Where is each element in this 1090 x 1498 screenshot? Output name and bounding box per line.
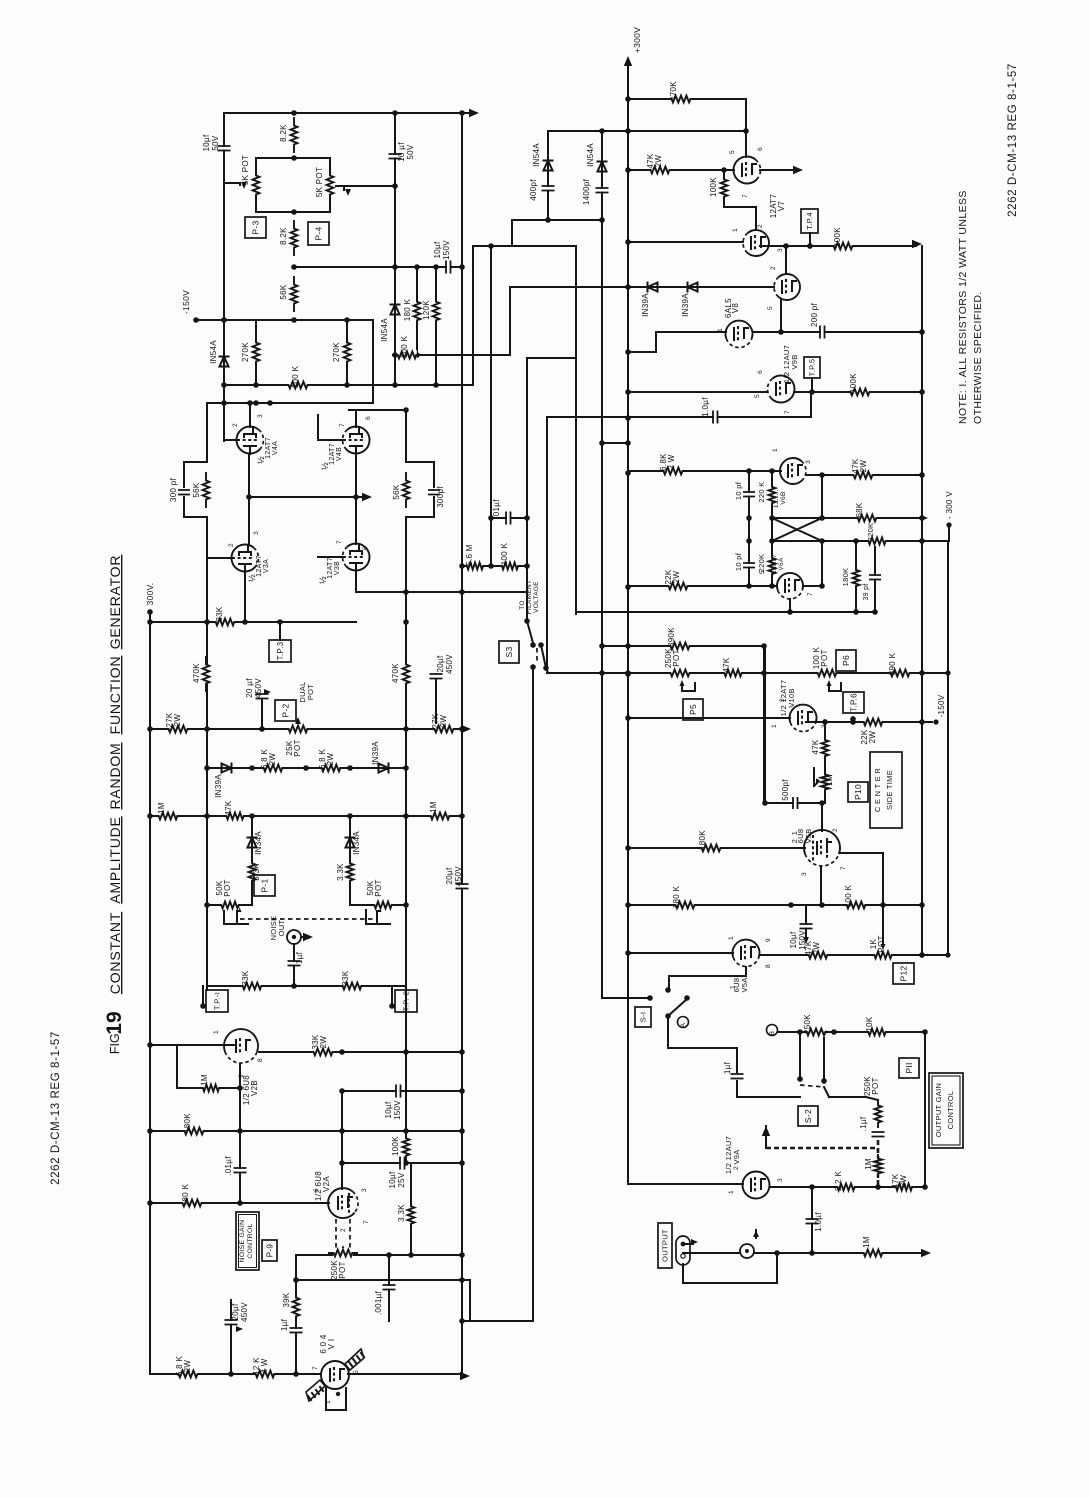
svg-text:A: A: [680, 1022, 687, 1027]
svg-text:V3B: V3B: [334, 561, 341, 575]
svg-text:7: 7: [742, 194, 749, 198]
svg-text:1µf: 1µf: [295, 951, 304, 964]
svg-text:7: 7: [807, 592, 814, 596]
svg-text:270K: 270K: [332, 342, 341, 362]
svg-text:P-1: P-1: [260, 878, 270, 892]
svg-text:2W: 2W: [672, 571, 681, 584]
svg-text:S-2: S-2: [803, 1109, 813, 1123]
svg-text:2W: 2W: [268, 753, 277, 766]
svg-text:20µf: 20µf: [231, 1303, 240, 1320]
svg-text:S-I: S-I: [639, 1012, 648, 1022]
svg-text:2: 2: [779, 698, 786, 702]
svg-text:10 pf: 10 pf: [734, 481, 743, 500]
svg-text:20µf: 20µf: [436, 655, 445, 672]
svg-text:10µf: 10µf: [789, 931, 798, 948]
svg-text:56K: 56K: [279, 284, 288, 299]
svg-text:OUTPUT: OUTPUT: [661, 1229, 670, 1262]
svg-text:2W: 2W: [899, 1175, 908, 1188]
svg-text:POT: POT: [877, 935, 886, 952]
svg-text:POT: POT: [293, 739, 302, 756]
svg-text:56K: 56K: [192, 482, 201, 497]
svg-text:8: 8: [765, 964, 772, 968]
svg-text:1M: 1M: [864, 1158, 873, 1170]
svg-text:1M: 1M: [157, 802, 166, 814]
svg-text:270K: 270K: [241, 342, 250, 362]
svg-text:V3A: V3A: [263, 559, 270, 573]
svg-text:50V: 50V: [211, 135, 220, 150]
svg-text:T.P.3: T.P.3: [276, 641, 285, 660]
svg-text:CONSTANT: CONSTANT: [107, 912, 123, 994]
svg-text:V6A: V6A: [778, 557, 785, 571]
svg-text:V10B: V10B: [787, 688, 796, 708]
svg-text:5.6 M: 5.6 M: [465, 544, 474, 566]
svg-text:POT: POT: [672, 649, 681, 666]
svg-text:V2A: V2A: [322, 1176, 331, 1192]
svg-text:39 pf: 39 pf: [863, 583, 870, 600]
svg-text:47K: 47K: [811, 739, 820, 754]
svg-text:POT: POT: [306, 684, 315, 700]
svg-text:3: 3: [805, 460, 812, 464]
svg-text:20 µf: 20 µf: [245, 678, 254, 698]
svg-text:2W: 2W: [439, 715, 448, 728]
svg-text:7: 7: [840, 866, 847, 870]
svg-text:7: 7: [363, 1220, 370, 1224]
svg-text:100 K: 100 K: [844, 884, 853, 907]
svg-text:1.0µf: 1.0µf: [814, 1212, 823, 1232]
svg-text:S3: S3: [504, 647, 514, 658]
svg-text:4 W: 4 W: [260, 1358, 269, 1373]
svg-text:V9B: V9B: [790, 354, 799, 369]
svg-text:VOLTAGE: VOLTAGE: [533, 581, 540, 613]
svg-text:200 pf: 200 pf: [810, 303, 819, 328]
svg-text:2.2 K: 2.2 K: [834, 1171, 843, 1192]
svg-text:390 K: 390 K: [888, 652, 897, 675]
svg-text:8.2K: 8.2K: [279, 124, 288, 142]
svg-text:T.P.4: T.P.4: [805, 212, 814, 230]
svg-text:7: 7: [752, 330, 759, 334]
svg-text:2W: 2W: [319, 1036, 328, 1049]
svg-text:450V: 450V: [454, 866, 463, 886]
svg-text:6: 6: [362, 546, 369, 550]
svg-text:50V: 50V: [406, 144, 415, 159]
svg-text:450V: 450V: [254, 678, 263, 698]
svg-text:12AT7: 12AT7: [256, 555, 263, 577]
svg-text:6: 6: [313, 1188, 320, 1192]
svg-text:T.P.-I: T.P.-I: [213, 992, 222, 1010]
svg-text:T.P.5: T.P.5: [808, 359, 817, 377]
svg-text:470K: 470K: [391, 663, 400, 683]
svg-text:+ 300V.: + 300V.: [145, 583, 155, 614]
svg-text:400pf: 400pf: [529, 179, 538, 201]
svg-text:220K: 220K: [757, 554, 766, 573]
svg-text:500pf: 500pf: [781, 779, 790, 801]
svg-text:9: 9: [765, 938, 772, 942]
svg-text:1: 1: [772, 448, 779, 452]
svg-text:5: 5: [754, 394, 761, 398]
svg-text:12AT7: 12AT7: [265, 437, 272, 459]
svg-text:-150V: -150V: [181, 290, 191, 314]
svg-text:450V: 450V: [445, 654, 454, 674]
svg-text:2262 D-CM-13 REG 8-1-57: 2262 D-CM-13 REG 8-1-57: [1007, 63, 1019, 217]
svg-text:100 K: 100 K: [400, 335, 409, 358]
svg-text:2: 2: [340, 1228, 347, 1232]
svg-text:10µf: 10µf: [433, 241, 442, 258]
svg-text:V9A: V9A: [732, 1149, 741, 1164]
svg-text:100K: 100K: [833, 227, 842, 247]
svg-text:P12: P12: [899, 965, 909, 981]
svg-text:1: 1: [728, 1190, 735, 1194]
svg-text:IN54A: IN54A: [586, 143, 595, 167]
svg-text:220 K: 220 K: [757, 481, 766, 502]
svg-text:6: 6: [757, 370, 764, 374]
svg-text:NOTE: I. ALL RESISTORS 1/2: NOTE: I. ALL RESISTORS 1/2 WATT UNLESS: [957, 190, 969, 424]
svg-text:T.P.-2: T.P.-2: [402, 991, 411, 1011]
svg-text:OUT: OUT: [277, 920, 286, 937]
svg-text:2: 2: [232, 423, 239, 427]
svg-text:1: 1: [732, 228, 739, 232]
svg-text:5: 5: [729, 150, 736, 154]
svg-text:V6B: V6B: [780, 491, 787, 504]
svg-text:CONTROL: CONTROL: [247, 1223, 254, 1258]
svg-text:47K: 47K: [722, 657, 731, 672]
svg-text:180 K: 180 K: [181, 1183, 190, 1206]
svg-text:10µf: 10µf: [384, 1101, 393, 1118]
svg-text:IN54A: IN54A: [380, 318, 389, 342]
svg-text:IN39A: IN39A: [641, 293, 650, 317]
svg-text:120K: 120K: [422, 300, 431, 320]
svg-text:2W: 2W: [812, 942, 821, 955]
svg-text:220K: 220K: [866, 523, 875, 542]
svg-text:P-3: P-3: [251, 220, 261, 234]
svg-text:IN34A: IN34A: [254, 831, 263, 855]
svg-text:V7: V7: [777, 201, 786, 212]
svg-text:FILAMENT: FILAMENT: [526, 580, 533, 615]
svg-text:P5: P5: [688, 704, 698, 715]
svg-text:3: 3: [777, 248, 784, 252]
svg-text:TO: TO: [519, 600, 526, 610]
svg-text:10 µf: 10 µf: [397, 142, 406, 162]
svg-text:IN39A: IN39A: [371, 741, 380, 765]
svg-text:33K: 33K: [241, 970, 250, 985]
svg-text:3: 3: [777, 1178, 784, 1182]
svg-text:39K: 39K: [282, 1292, 291, 1307]
svg-text:470K: 470K: [192, 663, 201, 683]
svg-text:POT: POT: [223, 879, 232, 896]
svg-text:IN54A: IN54A: [532, 143, 541, 167]
svg-text:100K: 100K: [391, 1136, 400, 1156]
svg-text:100K: 100K: [849, 373, 858, 393]
svg-text:+300V: +300V: [632, 27, 642, 53]
svg-text:P-9: P-9: [265, 1244, 274, 1258]
svg-text:1M: 1M: [200, 1074, 209, 1086]
svg-text:V5B: V5B: [804, 828, 813, 843]
svg-text:3.3K: 3.3K: [397, 1204, 406, 1222]
svg-text:6: 6: [365, 416, 372, 420]
svg-text:2W: 2W: [654, 155, 663, 168]
svg-text:V5A: V5A: [740, 977, 749, 992]
svg-text:19: 19: [103, 1011, 126, 1034]
svg-text:470K: 470K: [669, 81, 678, 101]
svg-text:2262 D-CM-13 REG 8-1-57: 2262 D-CM-13 REG 8-1-57: [50, 1031, 62, 1185]
svg-text:100 K: 100 K: [500, 542, 509, 565]
svg-text:1µf: 1µf: [723, 1061, 732, 1074]
svg-text:2: 2: [733, 1166, 740, 1170]
svg-text:2: 2: [757, 224, 764, 228]
svg-text:10µf: 10µf: [388, 1171, 397, 1188]
svg-text:3.3K: 3.3K: [336, 863, 345, 881]
svg-text:300 pf: 300 pf: [169, 478, 178, 503]
svg-text:CONTROL: CONTROL: [946, 1091, 955, 1130]
svg-text:1M: 1M: [825, 774, 834, 786]
svg-text:100 K: 100 K: [291, 365, 300, 388]
svg-text:3: 3: [801, 872, 808, 876]
svg-text:180 K: 180 K: [403, 298, 412, 321]
svg-text:POT: POT: [374, 879, 383, 896]
svg-text:12AT7: 12AT7: [771, 554, 778, 574]
svg-text:1.0µf: 1.0µf: [701, 397, 710, 417]
svg-text:100K: 100K: [709, 177, 718, 197]
svg-text:2W: 2W: [173, 714, 182, 727]
svg-text:2W: 2W: [326, 753, 335, 766]
svg-text:.01µf: .01µf: [492, 499, 501, 519]
svg-text:1: 1: [325, 1400, 332, 1404]
svg-text:300pf: 300pf: [436, 486, 445, 508]
svg-text:IN39A: IN39A: [681, 293, 690, 317]
svg-text:25V: 25V: [397, 1172, 406, 1187]
svg-text:V8: V8: [731, 303, 740, 314]
svg-text:5K POT: 5K POT: [241, 155, 250, 185]
svg-text:.1µf: .1µf: [859, 1116, 868, 1131]
svg-text:SIDE TIME: SIDE TIME: [885, 770, 894, 810]
svg-text:20µf: 20µf: [445, 867, 454, 884]
svg-text:IN39A: IN39A: [214, 774, 223, 798]
svg-text:1µf: 1µf: [280, 1318, 289, 1331]
svg-text:3: 3: [253, 531, 260, 535]
svg-text:T.P.6: T.P.6: [849, 693, 858, 712]
svg-text:V4B: V4B: [336, 447, 343, 461]
svg-text:FUNCTION: FUNCTION: [107, 656, 123, 735]
svg-text:P-2: P-2: [281, 703, 291, 717]
svg-text:390K: 390K: [667, 627, 676, 647]
svg-text:RANDOM: RANDOM: [107, 742, 123, 809]
svg-text:8: 8: [257, 1058, 264, 1062]
svg-text:2: 2: [832, 828, 839, 832]
svg-text:POT: POT: [820, 649, 829, 666]
svg-text:V I: V I: [327, 1339, 336, 1350]
svg-text:IN34A: IN34A: [352, 831, 361, 855]
svg-text:10 pf: 10 pf: [734, 552, 743, 571]
svg-text:10µf: 10µf: [202, 134, 211, 151]
svg-text:2 W: 2 W: [667, 454, 676, 469]
svg-text:7: 7: [336, 540, 343, 544]
svg-text:250K: 250K: [803, 1014, 812, 1034]
svg-text:68K: 68K: [855, 502, 864, 517]
svg-text:3: 3: [361, 1188, 368, 1192]
svg-text:P10: P10: [853, 784, 863, 800]
svg-text:56K: 56K: [392, 484, 401, 499]
svg-text:180K: 180K: [183, 1113, 192, 1133]
svg-text:GENERATOR: GENERATOR: [107, 555, 123, 650]
svg-text:1M: 1M: [429, 801, 438, 813]
svg-text:OUTPUT GAIN: OUTPUT GAIN: [934, 1083, 943, 1137]
svg-text:IN54A: IN54A: [209, 340, 218, 364]
svg-text:150V: 150V: [393, 1100, 402, 1120]
svg-text:10K: 10K: [865, 1016, 874, 1031]
svg-text:12AT7: 12AT7: [327, 557, 334, 579]
svg-text:180K: 180K: [841, 568, 850, 587]
svg-text:1: 1: [728, 936, 735, 940]
svg-text:V2B: V2B: [250, 1080, 259, 1096]
svg-text:33K: 33K: [215, 606, 224, 621]
svg-text:AMPLITUDE: AMPLITUDE: [107, 816, 123, 903]
svg-text:C E N T E R: C E N T E R: [873, 768, 882, 813]
svg-text:8.2K: 8.2K: [279, 227, 288, 245]
svg-text:.01µf: .01µf: [224, 1156, 233, 1176]
svg-text:9: 9: [238, 1074, 245, 1078]
svg-text:1: 1: [717, 328, 724, 332]
svg-text:2W: 2W: [868, 731, 877, 744]
svg-text:2: 2: [770, 266, 777, 270]
svg-text:33K: 33K: [341, 970, 350, 985]
svg-text:3: 3: [257, 414, 264, 418]
svg-text:1400pf: 1400pf: [582, 178, 591, 205]
svg-text:6: 6: [757, 147, 764, 151]
svg-text:47K: 47K: [224, 800, 233, 815]
svg-text:2: 2: [228, 543, 235, 547]
svg-text:3: 3: [821, 724, 828, 728]
svg-text:POT: POT: [871, 1077, 880, 1094]
svg-text:NOISE GAIN: NOISE GAIN: [239, 1220, 246, 1263]
svg-text:150V: 150V: [442, 240, 451, 260]
svg-text:P6: P6: [841, 655, 851, 666]
svg-text:V4A: V4A: [272, 441, 279, 455]
svg-text:7: 7: [339, 423, 346, 427]
svg-text:180 K: 180 K: [672, 885, 681, 908]
svg-text:B: B: [769, 1031, 776, 1036]
svg-text:12AT7: 12AT7: [329, 443, 336, 465]
svg-text:1M: 1M: [862, 1236, 871, 1248]
svg-text:1: 1: [213, 1030, 220, 1034]
svg-text:7: 7: [312, 1366, 319, 1370]
svg-text:5K POT: 5K POT: [315, 167, 324, 197]
svg-text:POT: POT: [338, 1261, 347, 1278]
svg-text:5: 5: [767, 306, 774, 310]
svg-text:2W: 2W: [859, 460, 868, 473]
svg-text:7: 7: [784, 410, 791, 414]
svg-text:.001µf: .001µf: [374, 1290, 383, 1315]
svg-text:PII: PII: [904, 1062, 914, 1073]
svg-text:2W: 2W: [183, 1360, 192, 1373]
svg-text:OTHERWISE SPECIFIED.: OTHERWISE SPECIFIED.: [972, 291, 984, 424]
svg-text:- 300 V: - 300 V: [945, 491, 954, 519]
svg-text:5: 5: [759, 570, 766, 574]
svg-text:P-4: P-4: [314, 226, 324, 240]
svg-text:180K: 180K: [698, 830, 707, 850]
svg-text:5: 5: [353, 1370, 360, 1374]
svg-text:450V: 450V: [240, 1302, 249, 1322]
svg-text:1: 1: [771, 724, 778, 728]
svg-text:-150V: -150V: [937, 694, 946, 717]
